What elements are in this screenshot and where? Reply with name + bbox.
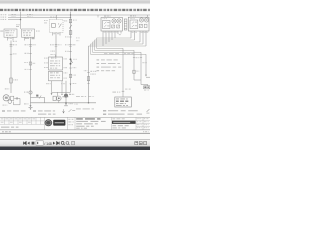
- footnote text left 2: [38, 110, 55, 111]
- switch contact: [69, 25, 72, 29]
- cluster 2 gauge sub-box: [130, 20, 138, 29]
- wire from control unit pin 1: [51, 81, 53, 94]
- arrow on wire: [70, 84, 72, 86]
- bus label 15: [1, 17, 7, 18]
- revision grid verticals: [5, 117, 41, 124]
- cluster 2 pin stubs: [130, 31, 132, 38]
- sheet cell text: [68, 119, 73, 120]
- link wire to sensors: [52, 91, 71, 93]
- wire label: [13, 41, 17, 42]
- tick 3: [69, 67, 71, 69]
- page footer text: [2, 131, 11, 132]
- label under small box: [144, 90, 149, 91]
- shield loop around sensor: [31, 98, 45, 103]
- title block divider 1: [44, 117, 46, 129]
- toolbar zoom-out icon: [61, 142, 64, 145]
- sender box: [53, 96, 56, 100]
- wire harness lead to ground bus: [88, 46, 90, 103]
- wire from motor: [14, 97, 20, 99]
- publisher oval logo: [45, 119, 53, 126]
- right cells fine rules: [136, 119, 150, 121]
- wire ticks: [69, 36, 71, 38]
- connector ticks on wire: [55, 44, 58, 46]
- svg-text:/ 148: / 148: [44, 142, 51, 146]
- cluster 1 lower symbols: [112, 25, 115, 28]
- inline connector on box B wire: [29, 62, 32, 65]
- gap below page: [0, 134, 150, 140]
- sender labels: [62, 96, 68, 97]
- cluster 1 gauge sub-box: [103, 21, 111, 29]
- cluster 1 interior label: [103, 17, 107, 20]
- footnote marker 4b right: [103, 114, 106, 115]
- page bottom edge: [0, 132, 150, 134]
- relay box K2 with text: [115, 97, 132, 107]
- wire relay to control unit: [55, 36, 57, 58]
- instrument cluster box 2: [128, 17, 149, 31]
- viewer toolbar background: [0, 140, 150, 147]
- staircase horizontal a: [97, 47, 124, 49]
- label on bus 15: [12, 16, 16, 17]
- title block divider 4: [111, 117, 113, 129]
- cluster 2 label above: [130, 15, 136, 16]
- stub to sender cluster: [57, 92, 59, 96]
- component on wire B: [133, 70, 135, 73]
- junction on ground bus: [65, 102, 67, 104]
- relay coil: [52, 24, 56, 28]
- wire fused supply: [70, 12, 72, 93]
- cluster 2 interior label: [130, 17, 135, 20]
- right wire D: [145, 54, 147, 76]
- fuse box B: [22, 29, 35, 37]
- footnote marker 4b left: [33, 110, 36, 111]
- stub from bus 30 to relay: [56, 15, 58, 20]
- motor auxiliary circle: [8, 100, 12, 104]
- harness horizontal 5: [89, 45, 147, 47]
- sensor G (filled): [64, 94, 68, 98]
- sensor symbol inside loop: [36, 95, 38, 97]
- right wire A (to relay box K2): [122, 48, 124, 97]
- wire drop to fuse boxes: [20, 12, 22, 29]
- wire label 2: [5, 88, 9, 89]
- sender stub to bus: [58, 101, 60, 103]
- cluster 1 label above: [104, 16, 110, 17]
- ground symbol note: [63, 109, 65, 111]
- nav last-page button: [57, 142, 60, 145]
- scanned schematic page: [0, 4, 150, 133]
- bundle wire 4: [90, 44, 92, 54]
- toolbar print icon: [32, 142, 35, 145]
- title block bottom line: [0, 129, 150, 131]
- toolbar prev-page button: [27, 142, 29, 145]
- label left of box A: [0, 31, 3, 32]
- tick on box B wire: [29, 69, 31, 71]
- label right of box B: [36, 31, 40, 32]
- junction bus15 end: [70, 17, 71, 18]
- diagram number caption rows: [112, 118, 124, 119]
- toolbar hand icon: [72, 141, 75, 144]
- wire tick 2: [29, 52, 31, 54]
- wire D tail: [146, 76, 150, 78]
- control unit J lower box: [49, 71, 63, 81]
- title block divider 2: [66, 117, 68, 129]
- connector pair: [69, 44, 72, 46]
- stub from link at pin 2: [61, 92, 63, 94]
- wire tick: [10, 53, 12, 55]
- toolbar right icon 2: [139, 142, 142, 145]
- right wire label row: [104, 53, 119, 54]
- footnote marker 4a left: [2, 110, 5, 111]
- wire bus 15: [8, 16, 71, 18]
- staircase horizontal d: [91, 53, 147, 55]
- warning lamp 1b: [117, 19, 121, 23]
- footnote text left: [7, 110, 25, 111]
- inline component: [69, 74, 71, 77]
- corner wire B to C: [134, 79, 141, 81]
- wire bus 30: [8, 14, 150, 16]
- harness horizontal 1: [97, 37, 132, 39]
- status bar (bottom dark band): [0, 147, 150, 150]
- junction with bus: [70, 14, 71, 15]
- bus label 30: [1, 14, 7, 15]
- diagram number dark bar: [112, 121, 136, 124]
- harness horizontal 3: [93, 41, 141, 43]
- revision grid cell text: [1, 117, 4, 120]
- bundle wire labels left: [76, 37, 80, 38]
- footnote text right 1: [108, 110, 138, 111]
- label on bus 30: [12, 14, 16, 15]
- title block divider 5: [135, 117, 137, 129]
- fuse box A: [4, 29, 17, 37]
- warning lamp 2a: [139, 18, 143, 22]
- connector ticks: [29, 44, 32, 46]
- toolbar zoom-in icon: [66, 142, 69, 145]
- publisher name plate: [53, 120, 65, 126]
- fuse F: [69, 19, 71, 23]
- switch with dot: [70, 58, 72, 60]
- toolbar right icon 3: [144, 142, 147, 145]
- cluster 1 pin stubs: [102, 31, 104, 46]
- instrument cluster box 1: [101, 18, 123, 32]
- ground bus wire: [31, 102, 97, 104]
- wire bus 31: [8, 19, 21, 21]
- component block: [69, 31, 72, 35]
- control unit stub above: [55, 54, 57, 57]
- ground drop mid: [65, 103, 67, 105]
- footnote marker 4a right: [103, 110, 106, 111]
- inline resistor on lead: [87, 77, 89, 81]
- connector strip T: [124, 19, 127, 30]
- small label box right: [144, 86, 150, 89]
- labels at relay box K2 feed: [112, 92, 120, 93]
- junction on bus 31: [20, 19, 21, 20]
- bundle wire 3: [92, 42, 94, 52]
- motor loop wire: [14, 98, 21, 104]
- relay K (dashed outline): [50, 20, 64, 33]
- tick 2 on lead: [87, 82, 89, 84]
- footnote text right 2: [108, 114, 142, 115]
- staircase horizontal c: [93, 51, 142, 53]
- right wire B: [133, 50, 135, 80]
- wire labels: [25, 38, 29, 39]
- browser chrome shadow band (top): [0, 0, 150, 5]
- wire from box B down to ground: [30, 41, 32, 104]
- cluster 2 lower symbols: [139, 24, 142, 27]
- staircase horizontal b: [95, 49, 135, 51]
- control unit J upper box: [49, 57, 63, 70]
- bundle wire 1: [96, 38, 98, 48]
- plug connector: [15, 97, 17, 99]
- warning lamp 1a: [112, 19, 116, 23]
- terminal 30 label: [64, 20, 67, 21]
- right cells text: [137, 117, 141, 120]
- harness horizontal 2: [95, 39, 135, 41]
- node label: [16, 24, 20, 25]
- nav next button: [53, 142, 55, 145]
- wire color legend rows: [97, 59, 100, 60]
- inline connector eyelet: [29, 91, 32, 94]
- title block divider 6: [142, 117, 144, 129]
- relay pin stubs: [52, 33, 54, 36]
- tick on lead: [87, 72, 89, 74]
- text right of relay: [44, 20, 48, 21]
- relay label above: [50, 17, 56, 18]
- pin labels right of control unit: [64, 58, 67, 59]
- warning lamp 2b: [144, 18, 148, 22]
- wire sensor to ground bus: [65, 98, 67, 103]
- motor label: [3, 105, 8, 106]
- stub bus to cluster 1: [97, 15, 99, 18]
- wire label row above ground bus: [76, 96, 86, 97]
- corner wire C to label box: [141, 84, 148, 86]
- ground drop left: [30, 103, 32, 106]
- toolbar right icon 1: [135, 142, 138, 145]
- viewer background: [0, 0, 150, 150]
- wiper motor M: [3, 95, 9, 101]
- footnote row small mid: [76, 108, 94, 109]
- toolbar first-page button: [23, 142, 26, 145]
- wire from control unit to sensor: [65, 81, 67, 94]
- sender circle: [57, 96, 62, 101]
- cluster 2 top tick: [147, 15, 149, 17]
- terminal strip (top rail of diagram): [0, 9, 151, 11]
- pin stubs of box A: [7, 37, 9, 40]
- title block top line: [0, 116, 150, 118]
- pin stubs of box B: [24, 37, 26, 40]
- title block bottom-left text: [1, 127, 18, 128]
- ground symbol left: [29, 107, 33, 109]
- tick 2: [69, 50, 71, 52]
- bus label 31: [1, 19, 7, 20]
- bundle wire 2: [94, 40, 96, 50]
- arrow symbol note: [69, 109, 72, 112]
- revision grid horizontals: [0, 120, 45, 122]
- page number field: [36, 141, 43, 145]
- title block divider 3: [74, 117, 76, 129]
- description text block: [76, 118, 100, 119]
- harness horizontal 4: [91, 43, 144, 45]
- connector in wire: [10, 44, 13, 46]
- wire from control unit pin 2: [61, 81, 63, 93]
- resistor in wire: [10, 78, 13, 83]
- motor terminal box: [11, 96, 14, 100]
- page corner mark: [147, 109, 150, 112]
- pin label under box B: [32, 38, 35, 39]
- relay contact: [59, 24, 62, 28]
- pin labels left of control unit: [44, 58, 47, 59]
- wire from box A down to wiper motor: [10, 41, 12, 94]
- right wire C: [140, 52, 142, 84]
